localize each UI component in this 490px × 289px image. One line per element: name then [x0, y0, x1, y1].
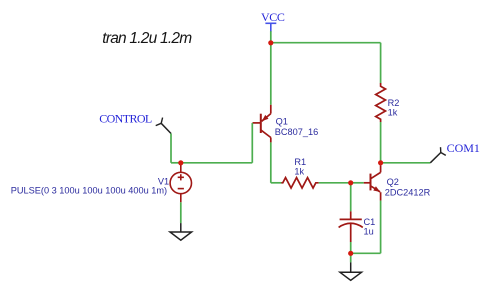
wire ground stub: [350, 253, 352, 262]
svg-text:PULSE(0 3 100u 100u 100u 400u: PULSE(0 3 100u 100u 100u 400u 1m): [11, 185, 167, 195]
voltage source V1: [170, 164, 191, 202]
wire V1 bottom to ground: [180, 202, 182, 223]
wire corner to R1 left: [271, 182, 282, 184]
wire R2 bottom to COM node: [380, 122, 382, 163]
resistor R1: [281, 178, 318, 188]
transistor Q1 (PNP BC807_16): [253, 105, 271, 143]
transistor Q2 (NPN 2DC2412R): [364, 165, 381, 200]
svg-text:1k: 1k: [294, 166, 304, 176]
ground (under C1): [340, 262, 362, 280]
svg-text:1k: 1k: [388, 107, 398, 117]
svg-text:Q2: Q2: [387, 177, 399, 187]
svg-text:VCC: VCC: [261, 10, 285, 24]
resistor R2: [376, 83, 386, 122]
junction Q2 base node: [348, 180, 353, 185]
svg-text:tran 1.2u 1.2m: tran 1.2u 1.2m: [102, 30, 192, 47]
net flag CONTROL: [99, 111, 171, 133]
svg-text:R2: R2: [388, 98, 400, 108]
wire base node to Q2 base: [351, 182, 364, 184]
junction VCC node: [268, 40, 273, 45]
svg-text:1u: 1u: [364, 226, 374, 236]
svg-text:CONTROL: CONTROL: [99, 111, 152, 125]
svg-text:R1: R1: [294, 157, 306, 167]
capacitor C1 (polarized): [339, 211, 363, 242]
wire top rail horizontal: [271, 42, 381, 44]
svg-text:C1: C1: [364, 217, 376, 227]
junction COM node: [378, 160, 383, 165]
wire top rail down to R2: [380, 43, 382, 83]
wire C1 bottom to ground node: [350, 242, 352, 253]
wire base column up: [251, 123, 253, 163]
ground (under V1): [170, 223, 192, 240]
wire CONTROL row to V1 node: [171, 162, 181, 164]
net flag COM1: [430, 141, 480, 163]
svg-text:2DC2412R: 2DC2412R: [385, 187, 431, 197]
wire COM node to flag: [381, 162, 431, 164]
wire ground node right: [351, 252, 381, 254]
junction C1 ground node: [348, 251, 353, 256]
svg-text:Q1: Q1: [276, 116, 288, 126]
wire VCC node down to Q1 emitter: [270, 43, 272, 105]
wire VCC stem to junction: [270, 31, 272, 43]
wire Q1 collector down: [270, 142, 272, 182]
junction V1 node: [178, 160, 183, 165]
wire base node down to C1: [350, 183, 352, 212]
wire R1 right to base node: [319, 182, 351, 184]
wire V1 node to Q1 base column: [181, 162, 253, 164]
svg-text:COM1: COM1: [447, 141, 480, 155]
net flag VCC: [261, 10, 285, 32]
svg-text:BC807_16: BC807_16: [275, 127, 318, 137]
wire CONTROL flag down: [170, 134, 172, 163]
wire up to Q2 emitter: [380, 201, 382, 254]
